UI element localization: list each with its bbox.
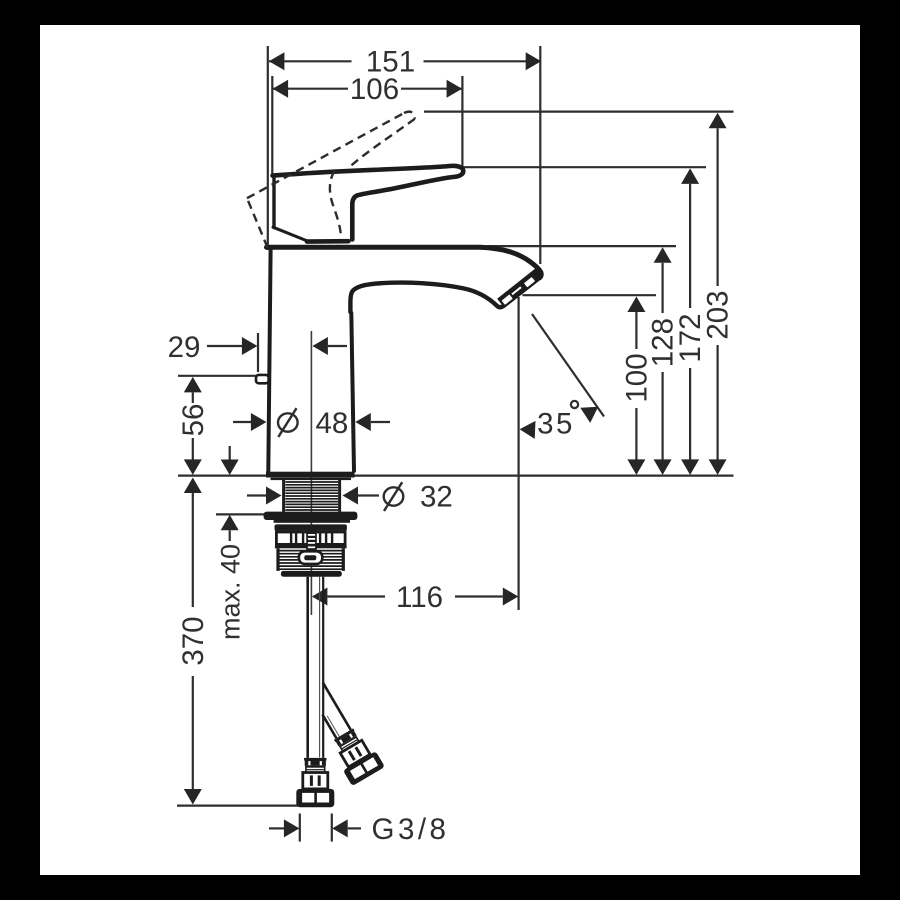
svg-text:106: 106 (350, 73, 399, 106)
shank threads (285, 482, 338, 510)
diagonal hose connector (327, 724, 385, 786)
dashed handle front edge (350, 119, 415, 167)
dashed handle tip arc (404, 112, 415, 119)
base line (178, 475, 734, 477)
arrow 32 left (266, 487, 282, 505)
dim 48 right line (371, 421, 390, 423)
svg-text:370: 370 (177, 616, 210, 665)
extension line left of 106 (handle rear) (271, 76, 273, 174)
arrow 48 left (251, 413, 267, 431)
arrow 29 (242, 337, 258, 355)
arrow 128 top (654, 247, 672, 262)
svg-text:203: 203 (702, 290, 735, 339)
svg-text:max. 40: max. 40 (216, 544, 246, 640)
hatched nut left wall (276, 548, 279, 571)
dim line max40 stub (229, 446, 231, 460)
arrow 35deg at diagonal line (580, 407, 598, 423)
boundary line 370 bottom (177, 804, 298, 806)
handle bottom bar (307, 239, 349, 244)
dim G3/8 right line (348, 827, 361, 829)
diameter symbol for 48 (278, 408, 298, 437)
body right edge (351, 313, 354, 471)
dim 32 left line (247, 494, 266, 496)
body left edge (268, 250, 270, 471)
level line 100 (outlet) (523, 294, 657, 296)
dim line 56 (192, 392, 194, 403)
35 degree diagonal line (532, 314, 604, 417)
diagonal hose upper wall (323, 682, 351, 729)
centre threaded rod (306, 529, 317, 554)
svg-text:35: 35 (537, 408, 575, 441)
tick at knob for 29 (257, 333, 259, 372)
aerator end notch upper (524, 277, 535, 287)
spout tip face and underside (350, 278, 539, 312)
vertical hose right wall (322, 577, 324, 758)
mounting nut top band (275, 524, 347, 530)
nut hatch lines (278, 551, 343, 570)
svg-text:48: 48 (316, 407, 349, 440)
level line 172 (handle top) (464, 166, 707, 168)
border frame bottom (0, 875, 900, 900)
horseshoe clip capsule (299, 551, 322, 564)
dim G3/8 left line (269, 827, 284, 829)
arrow max40 up (221, 515, 239, 531)
dim line 151 (269, 60, 352, 62)
arrow 370 bottom (184, 789, 202, 805)
threaded shank right wall (338, 480, 341, 512)
arrow 100 bottom (627, 459, 645, 475)
svg-text:56: 56 (177, 404, 210, 437)
dashed handle top edge (247, 113, 404, 198)
arrow 48 right (355, 413, 371, 431)
vertical hose inner line (319, 577, 321, 758)
arrow 56 bottom (184, 459, 202, 475)
dim line 100 vertical (635, 312, 637, 349)
flange lower step (274, 520, 350, 523)
aerator centre slit (512, 287, 521, 294)
clip inner dash (304, 555, 316, 560)
arrow 151 left (269, 52, 285, 70)
arrow 32 right (343, 487, 359, 505)
svg-text:G3/8: G3/8 (372, 813, 450, 846)
arrow 128 bottom (654, 459, 672, 475)
handle lever outline (273, 166, 464, 240)
diagonal hose inner line (327, 716, 339, 737)
flange (264, 512, 358, 520)
rod thread slits (308, 534, 315, 548)
degree symbol for 35 (571, 401, 578, 408)
level line 128 (body top) (487, 245, 676, 247)
svg-text:29: 29 (168, 331, 201, 364)
extension line 116 right / 35deg vertical (517, 297, 519, 610)
aerator band at spout tip (501, 273, 540, 304)
arrow 35deg at vertical line (520, 421, 536, 439)
dim line 116 (327, 595, 385, 597)
arrow 106 right (447, 80, 463, 98)
nut bottom band (281, 571, 342, 577)
arrow 29 opposing at centre line (312, 337, 328, 355)
handle left edge (272, 176, 275, 228)
arrow 203 bottom (709, 459, 727, 475)
arrow G3/8 left (284, 819, 300, 837)
hatched nut right wall (342, 548, 345, 571)
arrow 172 top (681, 168, 699, 184)
body base lower lip (271, 478, 352, 480)
arrow 56 top (184, 377, 202, 393)
tick G3/8 right (331, 814, 333, 842)
border frame left (0, 0, 40, 900)
vertical hose connector (296, 758, 334, 807)
arrow 203 top (709, 113, 727, 129)
border frame top (0, 0, 900, 25)
centre line of faucet body (310, 331, 312, 615)
boundary line 56 top (178, 375, 256, 377)
tick G3/8 left (299, 814, 301, 842)
body top and spout upper curve (267, 247, 542, 277)
vertical hose left wall (306, 577, 309, 758)
dim 29 arrow line (207, 345, 243, 347)
arrow 172 bottom (681, 459, 699, 475)
svg-text:116: 116 (396, 581, 443, 614)
diameter symbol for 32 (384, 482, 404, 511)
handle bottom slant (273, 227, 309, 241)
slotted ring outline (275, 529, 347, 554)
dim line 370 (192, 493, 194, 607)
arrow 370 top (184, 478, 202, 494)
boundary line max40 bottom (216, 513, 278, 515)
arrow 106 left (273, 80, 289, 98)
svg-text:32: 32 (420, 481, 453, 514)
threaded shank left wall (282, 480, 285, 512)
border frame right (860, 0, 900, 900)
dashed handle heel curve (330, 171, 341, 234)
arrow 116 left (312, 588, 328, 606)
dim line 128 vertical (661, 263, 663, 313)
diagonal hose and connector (299, 677, 385, 786)
arrow 151 right (526, 52, 542, 70)
dim line 203 vertical (716, 128, 718, 286)
extension line left of 151 (body rear) (267, 46, 269, 250)
extension line right of 151 (spout tip) (539, 46, 541, 264)
dim 48 left line (233, 421, 251, 423)
extension line right of 106 (handle tip) (461, 76, 463, 167)
dim line 172 vertical (689, 184, 691, 308)
arrow 100 top (627, 297, 645, 313)
dim 32 right line (358, 494, 379, 496)
arrow 116 right (503, 588, 519, 606)
slot dividers (290, 532, 292, 545)
band under slots (275, 545, 347, 548)
body base dark band (266, 472, 355, 478)
level line 203 (raised handle top) (424, 110, 734, 112)
aerator end notch lower (502, 294, 513, 304)
dim 29 opposing line at centre (328, 345, 347, 347)
diagonal hose lower wall (322, 715, 336, 739)
dim line 106 (273, 88, 348, 90)
arrow G3/8 right (332, 819, 348, 837)
arrow max40 down (221, 460, 239, 476)
dashed handle back edge (247, 198, 268, 247)
pop-up rod knob (256, 375, 269, 383)
